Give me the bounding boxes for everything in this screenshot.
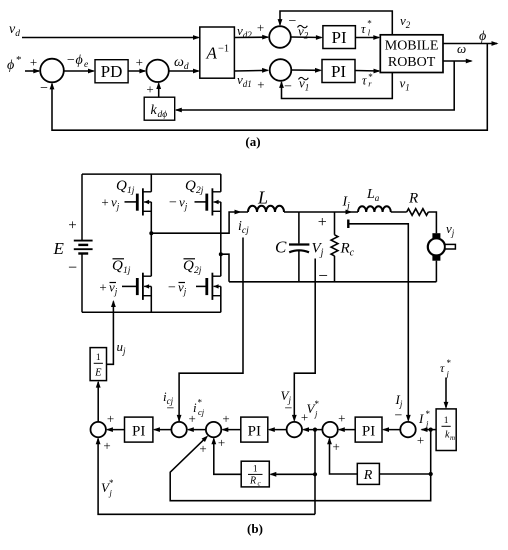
- svg-text:PI: PI: [362, 424, 375, 440]
- label Q-bar_1j: [112, 258, 131, 276]
- wire node A to Q1j-bar drain: [150, 233, 152, 276]
- wire PI2 to U3: [221, 427, 241, 432]
- wire U2 to PI1: [153, 427, 172, 432]
- wire V*_j feedforward to U1: [96, 437, 315, 514]
- wire motor to bottom return: [435, 261, 437, 282]
- label i_cj current: [238, 219, 249, 236]
- block PI armature current: [355, 417, 382, 442]
- label tau_l*: [361, 19, 372, 38]
- node A junction dot: [149, 231, 153, 235]
- wire PI1 to U1: [106, 427, 125, 432]
- block 1/k_m gain: [436, 409, 456, 451]
- plus sign V_j: [318, 214, 327, 231]
- svg-text:Rc: Rc: [340, 241, 355, 259]
- wire L_a to R: [391, 211, 407, 213]
- wire nu_d1 from A-1 to S4: [234, 68, 269, 73]
- wire Q1j source to node A: [150, 202, 152, 233]
- plus sign U3 diagonal input: [199, 441, 206, 456]
- wire PI3 to U5: [338, 427, 355, 432]
- wire tau_l* to robot: [355, 35, 380, 40]
- block MOBILE ROBOT: [380, 35, 443, 73]
- minus sign V_j: [318, 266, 328, 285]
- arrow i_cj current direction: [235, 210, 242, 215]
- wire I_j sense line: [348, 220, 410, 422]
- wire node A to inductor L: [151, 212, 248, 233]
- node V*_j junction dot: [313, 428, 317, 432]
- wire node D to R_c: [334, 212, 336, 235]
- wire Q2j-bar source to rail: [220, 286, 222, 312]
- wire U5 to U4 V*_j: [302, 427, 322, 432]
- wire R block to U5 bottom: [327, 437, 357, 474]
- wire U1 to 1/E: [96, 381, 101, 422]
- svg-text:−: −: [68, 260, 77, 277]
- svg-text:−: −: [289, 14, 297, 29]
- wire I*_j branch down: [430, 430, 432, 474]
- wire V*_j into 1/R_c: [269, 472, 315, 477]
- label omega_d: [174, 55, 189, 72]
- label -phi_e error: [66, 53, 88, 70]
- svg-text:Q: Q: [116, 178, 127, 194]
- svg-text:Vj: Vj: [312, 241, 324, 259]
- svg-text:*: *: [109, 478, 114, 488]
- wire V*_j feedforward down: [314, 430, 316, 515]
- svg-text:PI: PI: [248, 424, 261, 440]
- svg-text:C: C: [275, 238, 287, 257]
- label nu_d1: [237, 72, 252, 89]
- svg-text:−: −: [395, 409, 403, 424]
- wire Q2j drain from rail: [220, 174, 222, 192]
- block R gain: [357, 463, 379, 484]
- label tau*_j torque ref: [440, 358, 452, 379]
- plus sign battery: [68, 218, 76, 234]
- svg-text:+: +: [257, 77, 264, 92]
- plus sign U5 bottom: [333, 439, 340, 454]
- wire I*_j into R block: [379, 473, 430, 475]
- wire 1/k_m to U6: [421, 427, 437, 432]
- resistor R_c damping: [331, 235, 338, 256]
- summing junction S1: [40, 59, 64, 83]
- wire S2 to A-1: [169, 69, 200, 74]
- svg-text:cj: cj: [198, 407, 205, 417]
- svg-text:+: +: [338, 411, 345, 426]
- svg-text:−: −: [284, 80, 292, 95]
- svg-text:Q: Q: [185, 178, 196, 194]
- label phi* reference: [7, 54, 22, 73]
- svg-text:icj: icj: [238, 219, 249, 236]
- svg-text:−: −: [285, 402, 293, 417]
- svg-text:*: *: [447, 358, 452, 368]
- label V_j with polarity: [312, 241, 324, 259]
- wire PD to summer S2: [128, 69, 146, 74]
- block k_dphi gain: [144, 97, 175, 120]
- svg-text:E: E: [53, 239, 65, 258]
- svg-text:1j: 1j: [127, 186, 135, 196]
- plus sign S2 bottom input: [146, 82, 153, 97]
- label omega output: [457, 41, 466, 56]
- minus sign S4 feedback: [284, 80, 292, 95]
- wire phi feedback to S1: [50, 44, 488, 131]
- minus sign S1 feedback: [40, 81, 48, 96]
- wire R to motor: [428, 212, 436, 233]
- label nu-tilde_1: [299, 76, 310, 93]
- wire Q1j-bar source to rail: [150, 286, 152, 312]
- svg-text:I: I: [418, 411, 424, 426]
- block PI upper controller: [323, 26, 356, 49]
- svg-text:E: E: [94, 368, 102, 379]
- wire node C to capacitor: [298, 212, 300, 243]
- wire nu_1 feedback loop: [279, 73, 392, 99]
- label i*_cj ref: [193, 398, 205, 418]
- battery E source: [74, 174, 93, 312]
- wire Q2j gate lead: [195, 201, 206, 203]
- svg-text:−1: −1: [218, 44, 229, 55]
- svg-text:1: 1: [444, 416, 449, 426]
- svg-text:+: +: [222, 411, 229, 426]
- svg-text:1: 1: [96, 353, 101, 363]
- svg-text:2j: 2j: [196, 186, 204, 196]
- wire L to node C: [284, 211, 299, 213]
- wire k_dphi to S2: [156, 82, 161, 97]
- svg-text:τ: τ: [440, 361, 445, 375]
- svg-text:τ: τ: [362, 73, 367, 87]
- svg-text:Ij: Ij: [342, 195, 351, 212]
- wire V_j sense line: [292, 259, 315, 422]
- svg-text:(b): (b): [247, 521, 263, 536]
- svg-text:+: +: [68, 218, 76, 234]
- plus sign U6 bottom: [417, 433, 424, 448]
- wire node C to node D: [299, 211, 335, 213]
- label L: [257, 188, 268, 208]
- wire omega output: [443, 59, 473, 64]
- svg-text:−: −: [40, 81, 48, 96]
- node I*_j branch junction dot: [429, 428, 433, 432]
- svg-text:PI: PI: [331, 62, 346, 81]
- label R_c: [340, 241, 355, 259]
- block 1/E gain: [90, 348, 106, 381]
- wire 1/R_c to U3 bottom: [211, 437, 241, 474]
- svg-text:j: j: [314, 409, 318, 419]
- minus sign U2 top: [167, 402, 175, 417]
- svg-text:vj: vj: [111, 195, 120, 212]
- caption (b): [247, 521, 263, 536]
- node V*_j to 1/R_c junction dot: [313, 472, 317, 476]
- plus sign U4 right: [301, 410, 308, 425]
- block PD controller: [95, 60, 128, 83]
- svg-text:+: +: [136, 55, 143, 70]
- label nu_d2: [237, 23, 252, 40]
- svg-text:j: j: [425, 419, 429, 429]
- svg-text:1: 1: [253, 465, 258, 475]
- plus sign S1 input: [30, 55, 37, 70]
- svg-text:Ij: Ij: [395, 392, 403, 409]
- svg-text:A: A: [206, 44, 218, 63]
- svg-text:+: +: [301, 410, 308, 425]
- wire i_cj sense line: [177, 238, 243, 422]
- svg-text:ωd: ωd: [174, 55, 189, 72]
- wire Q1j gate lead: [125, 201, 137, 203]
- svg-text:Q: Q: [112, 258, 123, 274]
- transistor Q2j: [207, 188, 221, 215]
- summing junction U5 voltage-ref mixer: [322, 422, 337, 437]
- svg-text:(a): (a): [245, 134, 260, 149]
- wire S3 to upper PI: [291, 35, 323, 40]
- label +v-bar_j gate: [99, 280, 117, 297]
- label V*_j feedforward: [101, 478, 114, 498]
- label v_d input: [9, 22, 20, 39]
- wire Q1j drain from rail: [150, 174, 152, 192]
- label +v_j gate Q1j: [101, 195, 119, 212]
- wire H-bridge bottom rail: [82, 311, 221, 313]
- summing junction U1 duty: [91, 422, 106, 437]
- summing junction U4 voltage: [287, 422, 302, 437]
- svg-text:+: +: [333, 439, 340, 454]
- svg-text:Q: Q: [183, 258, 194, 274]
- label nu_2: [400, 13, 411, 30]
- svg-text:dϕ: dϕ: [158, 110, 168, 120]
- svg-text:j: j: [446, 369, 450, 379]
- block 1/R_c gain: [241, 461, 269, 487]
- wire R_c to bottom rail: [334, 256, 336, 282]
- wire u_j gate drive: [107, 300, 116, 364]
- svg-text:ν1: ν1: [400, 76, 410, 93]
- wire bottom return rail: [229, 281, 436, 283]
- svg-text:+: +: [199, 441, 206, 456]
- label L_a: [366, 187, 380, 203]
- svg-text:νd1: νd1: [237, 72, 252, 89]
- label i_cj feedback: [163, 389, 174, 406]
- svg-text:vj: vj: [179, 195, 188, 212]
- label V*_j ref: [307, 399, 320, 419]
- wire nu_2 feedback loop: [278, 11, 393, 35]
- svg-text:j: j: [109, 488, 113, 498]
- transistor Q1j-bar: [137, 273, 151, 300]
- svg-text:l: l: [368, 28, 371, 38]
- wire capacitor to bottom rail: [298, 251, 300, 282]
- svg-text:2j: 2j: [194, 266, 202, 276]
- minus sign U6 top: [395, 409, 403, 424]
- label tau_r*: [362, 72, 373, 89]
- svg-text:+: +: [30, 55, 37, 70]
- svg-text:R: R: [363, 468, 373, 483]
- plus sign S2 left input: [136, 55, 143, 70]
- plus sign U3 right: [222, 411, 229, 426]
- wire U3 to U2: [187, 427, 206, 432]
- block PI voltage: [241, 417, 268, 442]
- label -v-bar_j gate: [168, 280, 187, 297]
- svg-text:+: +: [417, 433, 424, 448]
- svg-text:ϕ: ϕ: [479, 29, 486, 44]
- plus sign U1 bottom: [103, 438, 110, 453]
- summing junction U6 armature current: [400, 422, 415, 437]
- svg-text:ω: ω: [457, 41, 466, 56]
- summing junction S2: [146, 60, 168, 82]
- arrow I_j current direction: [346, 210, 353, 215]
- wire U6 to PI3: [382, 427, 400, 432]
- plus sign S3 left input: [257, 20, 264, 35]
- node I*_j to R junction dot: [429, 472, 433, 476]
- inductor L_a armature: [358, 206, 391, 212]
- wire Q2j source to node B: [220, 202, 222, 254]
- wire omega feedback to k_dphi: [175, 61, 454, 112]
- label V_j feedback: [281, 388, 292, 405]
- svg-text:+: +: [318, 214, 327, 231]
- capacitor C filter: [289, 245, 309, 253]
- minus sign S3 feedback: [289, 14, 297, 29]
- wire tau*_j into 1/k_m: [444, 378, 449, 409]
- svg-text:PI: PI: [132, 424, 145, 440]
- summing junction U3 current-ref mixer: [206, 422, 221, 437]
- block PI lower controller: [322, 60, 355, 83]
- svg-text:+: +: [189, 411, 196, 426]
- label nu-tilde_2: [298, 24, 309, 41]
- label -v_j gate Q2j: [169, 195, 188, 212]
- svg-text:ν2: ν2: [400, 13, 411, 30]
- wire I*_j feedforward to U3: [170, 435, 431, 500]
- svg-text:−: −: [169, 196, 177, 211]
- svg-text:+: +: [218, 435, 225, 450]
- label Q_1j: [116, 178, 135, 196]
- wire node D to motor branch: [335, 211, 359, 213]
- svg-text:νd2: νd2: [237, 23, 252, 40]
- svg-text:+: +: [99, 280, 106, 295]
- svg-text:ROBOT: ROBOT: [388, 55, 436, 70]
- svg-text:k: k: [151, 103, 158, 118]
- label nu_1: [400, 76, 410, 93]
- svg-text:1j: 1j: [123, 266, 131, 276]
- svg-text:PI: PI: [332, 28, 347, 47]
- svg-text:+: +: [257, 20, 264, 35]
- resistor R armature: [407, 209, 429, 216]
- node B junction dot: [219, 252, 223, 256]
- svg-text:*: *: [198, 398, 203, 408]
- label E battery: [53, 239, 65, 258]
- wire phi output: [443, 41, 499, 46]
- svg-text:L: L: [257, 188, 268, 208]
- minus sign U4 top: [285, 402, 293, 417]
- svg-text:+: +: [146, 82, 153, 97]
- wire node B to Q2j-bar drain: [220, 254, 222, 276]
- transistor Q2j-bar: [207, 273, 221, 300]
- svg-text:R: R: [249, 476, 256, 487]
- block A^-1 inverse: [200, 27, 235, 78]
- svg-text:PD: PD: [101, 62, 123, 81]
- svg-text:τ: τ: [361, 22, 366, 36]
- svg-text:uj: uj: [117, 339, 127, 356]
- label C capacitor: [275, 238, 287, 257]
- svg-text:−ϕ: −ϕ: [66, 53, 83, 68]
- wire S1 to PD: [64, 69, 95, 74]
- wire phi* into summer S1: [25, 69, 40, 74]
- wire node B to return rail: [221, 254, 229, 282]
- wire H-bridge top rail: [82, 173, 221, 175]
- plus sign S4 left input: [257, 77, 264, 92]
- label I_j current: [342, 195, 351, 212]
- label nu_j motor voltage: [446, 221, 455, 238]
- plus sign U1 right: [107, 411, 114, 426]
- svg-text:m: m: [450, 434, 455, 442]
- plus sign U5 right: [338, 411, 345, 426]
- svg-text:νj: νj: [446, 221, 455, 238]
- svg-text:*: *: [315, 399, 320, 409]
- wire v_d to A-1 block: [22, 35, 200, 40]
- block PI current i_cj: [125, 417, 153, 442]
- minus sign battery: [68, 260, 77, 277]
- svg-text:vd: vd: [9, 22, 20, 39]
- svg-text:ϕ: ϕ: [7, 58, 14, 73]
- svg-text:−: −: [168, 281, 176, 296]
- label phi output: [479, 29, 486, 44]
- label I_j feedback: [395, 392, 403, 409]
- svg-text:*: *: [16, 54, 22, 66]
- wire Q2j-bar gate lead: [196, 285, 206, 287]
- wire Q1j-bar gate lead: [122, 285, 136, 287]
- svg-text:MOBILE: MOBILE: [385, 39, 439, 54]
- summing junction U2 capacitor current: [171, 422, 186, 437]
- inductor L: [248, 206, 284, 212]
- svg-text:e: e: [84, 60, 88, 70]
- transistor Q1j: [137, 188, 151, 215]
- wire U4 to PI2: [268, 427, 287, 432]
- label Q_2j: [185, 178, 204, 196]
- label u_j control: [117, 339, 127, 356]
- svg-text:*: *: [426, 409, 431, 419]
- label Q-bar_2j: [183, 258, 202, 276]
- caption (a): [245, 134, 260, 149]
- plus sign U3 bottom-right: [218, 435, 225, 450]
- label I*_j current ref: [418, 409, 431, 429]
- svg-text:R: R: [408, 191, 418, 207]
- svg-text:La: La: [366, 187, 380, 203]
- label R armature: [408, 191, 418, 207]
- summing junction S3: [269, 26, 291, 48]
- svg-text:+: +: [101, 195, 108, 210]
- summing junction S4: [270, 59, 292, 81]
- motor M load: [428, 233, 456, 261]
- svg-text:−: −: [167, 402, 175, 417]
- plus sign U2 right: [189, 411, 196, 426]
- wire nu_d2 from A-1 to S3: [234, 35, 269, 40]
- svg-text:+: +: [107, 411, 114, 426]
- wire tau_r* to robot: [355, 69, 381, 74]
- svg-text:+: +: [103, 438, 110, 453]
- wire S4 to lower PI: [291, 68, 322, 73]
